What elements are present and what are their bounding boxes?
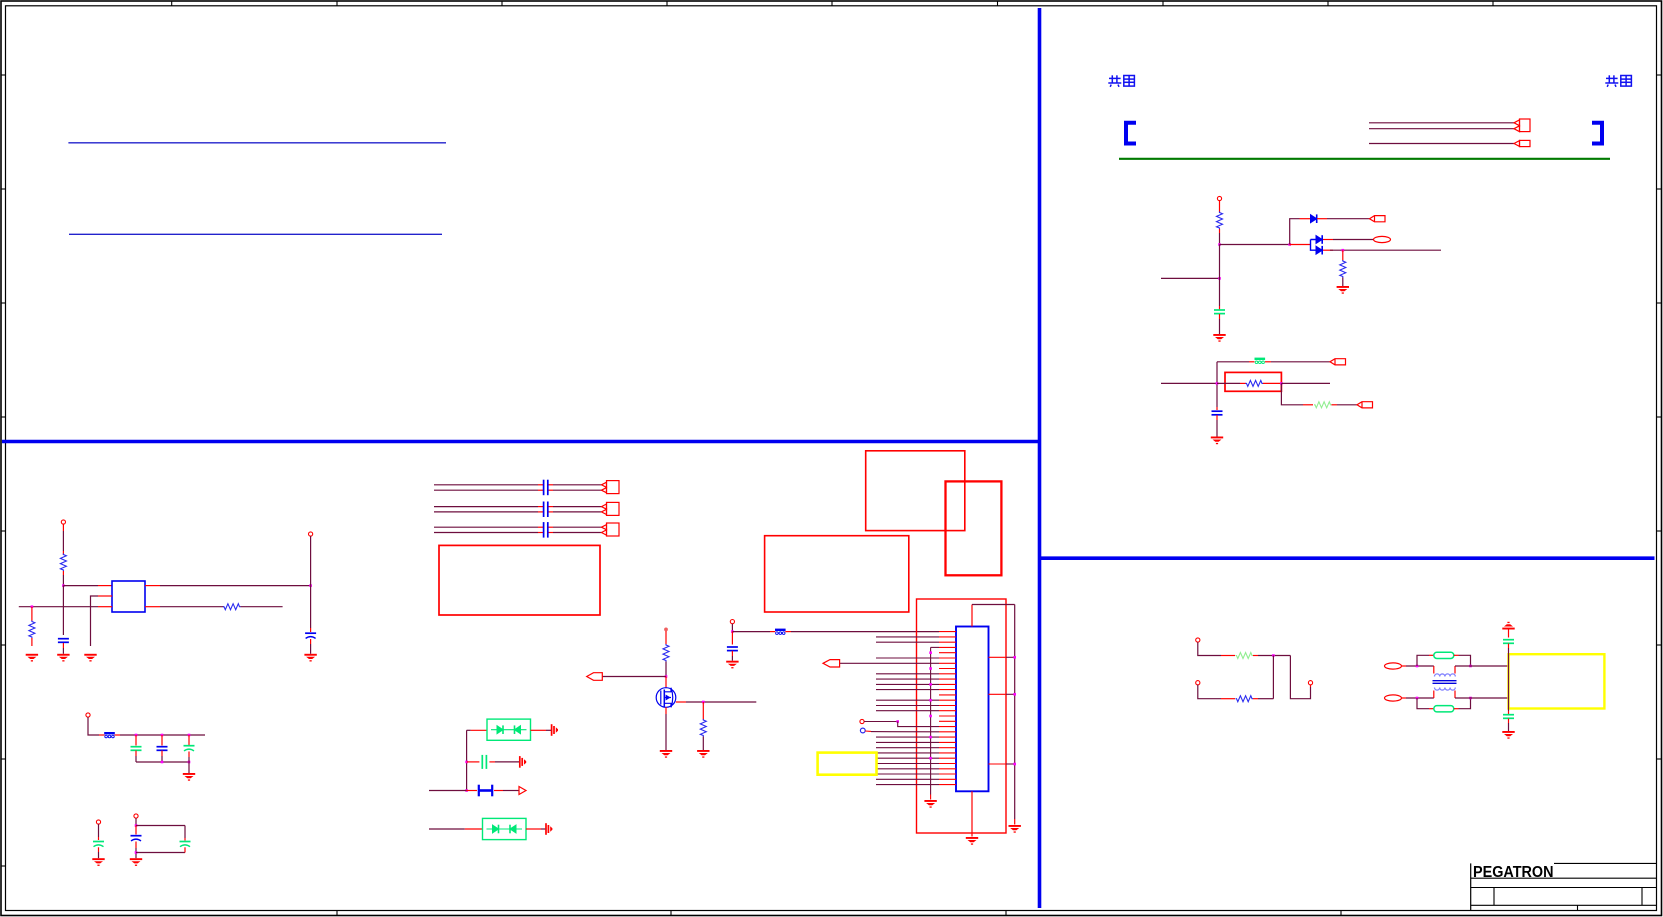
wire [1330,249,1441,251]
wire [188,757,190,773]
node junction [1218,243,1221,246]
wire [1219,201,1221,213]
wire pair 1 top [434,484,602,486]
wire [98,824,100,837]
node junction [1013,763,1016,766]
wire stub [1402,665,1407,667]
CN1 right pin 2 [989,693,1015,695]
wire stub [465,828,483,830]
connector J9 (2-pin off-page) [602,523,620,536]
ground [26,654,38,662]
title block cell divider 2 [1641,888,1643,906]
wire stub [310,628,312,632]
wire stub [1221,655,1235,657]
signal pin circle (blue) [860,728,865,733]
wire [1455,697,1509,699]
ground [183,773,195,781]
ground [697,750,709,758]
wire stub [531,729,547,731]
wire [1217,382,1240,384]
connector J10 (off-page left) [587,673,603,681]
connector J4 (oval port) [1374,236,1391,242]
CN1 right pin 1 [989,656,1015,658]
wire stub [135,826,137,835]
wire stub [494,790,503,792]
TVS diode pair D4 (green box) [483,818,527,839]
wire [1161,277,1220,279]
wire [160,585,311,587]
capacitor C8 (polarized green) [93,842,104,847]
label 共用 (right) [1605,75,1631,87]
wire stub [1317,218,1327,220]
wire stub [1219,306,1221,310]
wire bus line 2 [1369,128,1514,130]
node junction [135,851,138,854]
wire [1258,698,1273,700]
capacitor C5 (green) [131,747,142,751]
wire stub [98,837,100,840]
wire stub [1402,697,1407,699]
net name rule line 1 (top-left) [68,142,446,144]
connector J7 (2-pin off-page) [602,481,620,494]
node junction [188,734,191,737]
wire stub [145,585,160,587]
CN1 right pin 3 [989,763,1015,765]
wire stub (xfmr top-left pin) [1433,666,1435,674]
connector J5 (off-page) [1330,359,1346,365]
wire [1455,665,1509,667]
wire [665,662,667,677]
wire [1459,655,1471,666]
title block cell divider 3 [1577,905,1579,910]
bus bracket left (blue) [1126,123,1136,144]
fuse F1 (blue) [479,785,492,797]
wire stub [1429,654,1434,656]
power pin circle P3 [309,532,313,536]
resistor R5 [60,554,66,572]
wire [1219,319,1221,334]
wire [62,575,64,586]
wire stub [731,632,733,645]
power pin circle P12 [1196,681,1200,685]
ground [57,654,69,662]
wire [1508,723,1510,731]
node junction [1288,243,1291,246]
group box B (red thick) [946,481,1002,575]
wire stub [1263,382,1281,384]
resistor R6 [29,621,35,639]
capacitor C1 (green) [1214,310,1225,314]
wire [88,717,99,735]
node junction [896,720,899,723]
ground [84,654,96,662]
wire stub [1508,630,1510,638]
contact finger CF3 [546,823,552,835]
wire (CN1 bottom lead) [971,791,973,836]
wire stub [1300,218,1311,220]
wire [541,828,546,830]
connector J8 (2-pin off-page) [602,502,620,515]
wire [1198,642,1221,655]
wire [241,606,283,608]
section divider horizontal right (blue) [1041,556,1655,560]
wire [1219,245,1221,307]
node junction [929,651,932,654]
wire [1219,229,1221,233]
bus bracket right (blue) [1592,123,1602,144]
node junction [161,761,164,764]
transformer T1 secondary coil [1435,688,1456,691]
connector J3 (off-page) [1370,216,1386,222]
wire stub [135,842,137,849]
wire (hook) [1290,656,1310,699]
border tick marks right [1657,75,1662,759]
wire stub [145,606,160,608]
wire pair 1 bottom [434,489,602,491]
node junction [929,736,932,739]
ground [660,750,672,758]
wire stub [665,707,667,714]
green separator line [1119,158,1610,160]
wire stub [1454,654,1459,656]
wire [136,761,189,763]
wire [429,828,465,830]
capacitor C10 (polarized green) [180,842,191,847]
TVS diode pair D3 (green box) [487,719,531,740]
node junction [702,701,705,704]
wire stub [184,847,186,852]
power pin circle P8 [730,620,734,624]
ground [130,858,142,866]
wire stub [1216,407,1218,410]
wire stub [1508,711,1510,714]
group box D (red, connector frame) [917,599,1007,833]
node junction [1013,656,1016,659]
node junction [1280,382,1283,385]
ferrite bead FB1 (green) [1255,358,1266,364]
wire (CN1 top lead) [971,605,973,627]
ground [924,800,936,808]
wire [731,656,733,661]
resistor R9 [700,719,706,737]
wire (pin with connector) [840,662,939,664]
ground [726,661,738,669]
capacitor C13 (series pair 3) [544,522,548,538]
wire stub [98,606,112,608]
node junction [161,734,164,737]
wire [791,631,939,633]
wire stub [467,790,477,792]
wire stub [1219,314,1221,319]
connector J13 (oval port) [1385,695,1402,701]
transformer T1 core [1433,681,1457,684]
wire [702,737,704,751]
resistor R4 (light green) [1314,402,1332,408]
capacitor C4 (polarized blue) [305,633,316,638]
wire stub [1454,708,1459,710]
wire stub [526,828,541,830]
wire [1327,218,1370,220]
wire [310,586,312,628]
wire pin 5 [876,657,939,659]
wire [898,722,939,727]
wire stub [98,595,112,597]
title block line 4 [1471,904,1657,906]
node junction [929,757,932,760]
connector J2 (off-page) [1514,140,1530,146]
wire [1333,239,1374,241]
power pin circle P9 [860,719,864,723]
node junction [1416,665,1419,668]
ground [1211,437,1223,445]
wire pair 3 top [434,526,602,528]
wire [160,606,224,608]
border tick marks top [172,1,1493,6]
wire stub [1265,361,1271,363]
dual diode D2 bottom [1316,246,1322,255]
wire stub [676,701,686,703]
wire [62,531,64,551]
section divider horizontal left (blue) [2,440,1038,444]
wire [1271,361,1330,363]
node junction [665,675,668,678]
ferrite bead FB3 (blue) [775,629,786,635]
wire stub [770,631,775,633]
resistor R2 [1340,260,1346,278]
wire (right bus vertical) [1014,605,1016,820]
wire stub [1508,719,1510,724]
wire pair 3 bottom [434,532,602,534]
wire stub [115,734,121,736]
wire bus line 3 [1369,143,1514,145]
capacitor C9 (polarized blue) [131,836,142,841]
wire [1216,420,1218,437]
label 共用 (left) [1108,75,1134,87]
transistor Q1 (MOSFET) [656,688,676,708]
dual diode D2 common lead [1311,240,1317,251]
inductor L1 (green) [1434,652,1454,658]
connector J1 (double off-page, top-right) [1514,119,1530,132]
wire [1406,697,1434,699]
node junction [188,761,191,764]
node junction [309,584,312,587]
connector CN1 (blue box) [956,627,989,792]
diode D1 [1311,214,1317,223]
power pin circle P6 [134,814,138,818]
wire [135,756,137,762]
wire stub [1332,404,1338,406]
bus riser wire (vertical) [930,647,932,794]
wire stub [1221,698,1235,700]
capacitor C3 (blue) [58,639,69,643]
wire stub [865,730,871,732]
wire stub [99,734,105,736]
node junction [31,605,34,608]
highlight box (red) around R3 [1225,372,1281,391]
title block divider vertical [1470,863,1472,910]
power pin dot P7 [664,628,668,632]
wire (riser to pin4) [931,646,939,648]
wire [120,734,205,736]
power pin circle P5 [96,820,100,824]
contact finger CF1 [552,724,558,736]
resistor R11 [1236,696,1254,702]
wire [602,676,666,678]
ground [1009,825,1021,833]
wire stub [135,735,137,746]
wire stub [1508,644,1510,649]
section divider vertical (blue) [1038,8,1042,908]
title block line 3 [1471,887,1657,889]
wire [731,624,733,632]
border tick marks bottom [337,911,1341,916]
capacitor C2 (blue) [1212,411,1223,415]
wire stub [785,631,791,633]
wire (vertical tie) [1272,656,1274,699]
wire (bypass top) [1417,655,1429,666]
wire stub [1429,708,1434,710]
wire stub [1310,685,1312,687]
node junction [1416,697,1419,700]
wire pair 2 top [434,506,602,508]
power pin circle P11 [1308,681,1312,685]
node junction [62,584,65,587]
group box C (red) [765,536,909,612]
resistor R8 [663,644,669,662]
wire [135,818,137,825]
wire pair 2 bottom [434,511,602,513]
wire stub [188,735,190,746]
wire [19,606,98,608]
connector CN1 pin wires (maroon) [876,637,939,785]
node junction [1272,654,1275,657]
node junction [731,630,734,633]
wire stub [467,761,480,763]
wire vertical (circuit 2) [1216,362,1218,407]
wire [161,756,163,762]
wire stub [1216,415,1218,420]
wire [184,826,186,839]
wire [310,536,312,586]
title block cell divider 1 [1493,888,1495,906]
ground (flipped, top) [1502,622,1514,630]
wire stub (xfmr bottom-left pin) [1433,691,1435,699]
node junction [1469,697,1472,700]
border tick marks left [1,75,6,866]
wire [1217,361,1249,363]
wire [1406,665,1434,667]
capacitor C17 (green) [1503,715,1514,719]
wire stub [731,651,733,656]
wire [98,852,100,858]
ground [304,654,316,662]
wire stub [1342,278,1344,287]
capacitor C12 (series pair 2) [544,502,548,518]
wire [546,729,551,731]
wire [1219,233,1221,245]
inductor L2 (green) [1434,706,1454,712]
wire [972,604,1015,606]
group box (red) lower mid-left [439,545,600,615]
node junction [929,667,932,670]
wire [665,631,667,645]
capacitor C6 (blue) [157,747,168,751]
wire [135,848,137,858]
wire stub [702,702,704,720]
power pin circle P2 [61,520,65,524]
wire stub [1253,655,1258,657]
test point TP1 (open triangle) [519,787,526,795]
wire stub [98,847,100,852]
wire [1281,383,1303,404]
wire [136,852,185,854]
node junction [135,824,138,827]
contact finger CF2 [520,756,526,768]
wire stub [62,551,64,555]
title block line 2 [1471,877,1657,879]
wire stub [161,735,163,746]
wire stub [62,571,64,575]
capacitor C15 (green series) [482,755,486,769]
power pin circle P1 [1217,196,1221,200]
node junction [1013,693,1016,696]
wire [1459,698,1471,709]
wire stub (xfmr top-right pin) [1454,666,1456,674]
node junction [1469,665,1472,668]
connector J6 (off-page) [1357,402,1373,408]
wire [686,701,756,703]
resistor R1 [1217,212,1223,230]
ground [1502,731,1514,739]
node junction [1218,277,1221,280]
wire [1198,685,1221,699]
wire [864,721,898,723]
wire [62,648,64,654]
wire stub [1323,249,1333,251]
connector J11 (off-page left) [823,660,840,667]
wire [1220,244,1290,246]
wire (bypass bottom) [1417,698,1429,709]
wire stub [1290,244,1311,246]
wire [1281,382,1330,384]
wire [429,790,467,792]
wire stub [489,761,495,763]
capacitor C11 (series pair 1) [544,480,548,496]
wire stub [665,677,667,688]
node junction [929,683,932,686]
wire stub [31,638,33,646]
wire stub [1342,250,1344,260]
wire [1290,219,1300,245]
resistor R3 [1246,380,1264,386]
wire stub [930,795,932,800]
wire [871,731,939,733]
ground [92,858,104,866]
wire stub (xfmr bottom-right pin) [1454,691,1456,699]
wire [310,644,312,654]
capacitor C14 (blue) [727,647,738,651]
ground [1337,286,1349,294]
resistor R7 [223,604,241,610]
wire bus line 1 [1369,122,1514,124]
highlight box (yellow) [818,753,877,775]
wire [1161,382,1217,384]
wire stub [471,729,487,731]
wire stub [62,643,64,648]
ground [1213,334,1225,342]
node junction [1342,249,1345,252]
node junction [465,789,468,792]
